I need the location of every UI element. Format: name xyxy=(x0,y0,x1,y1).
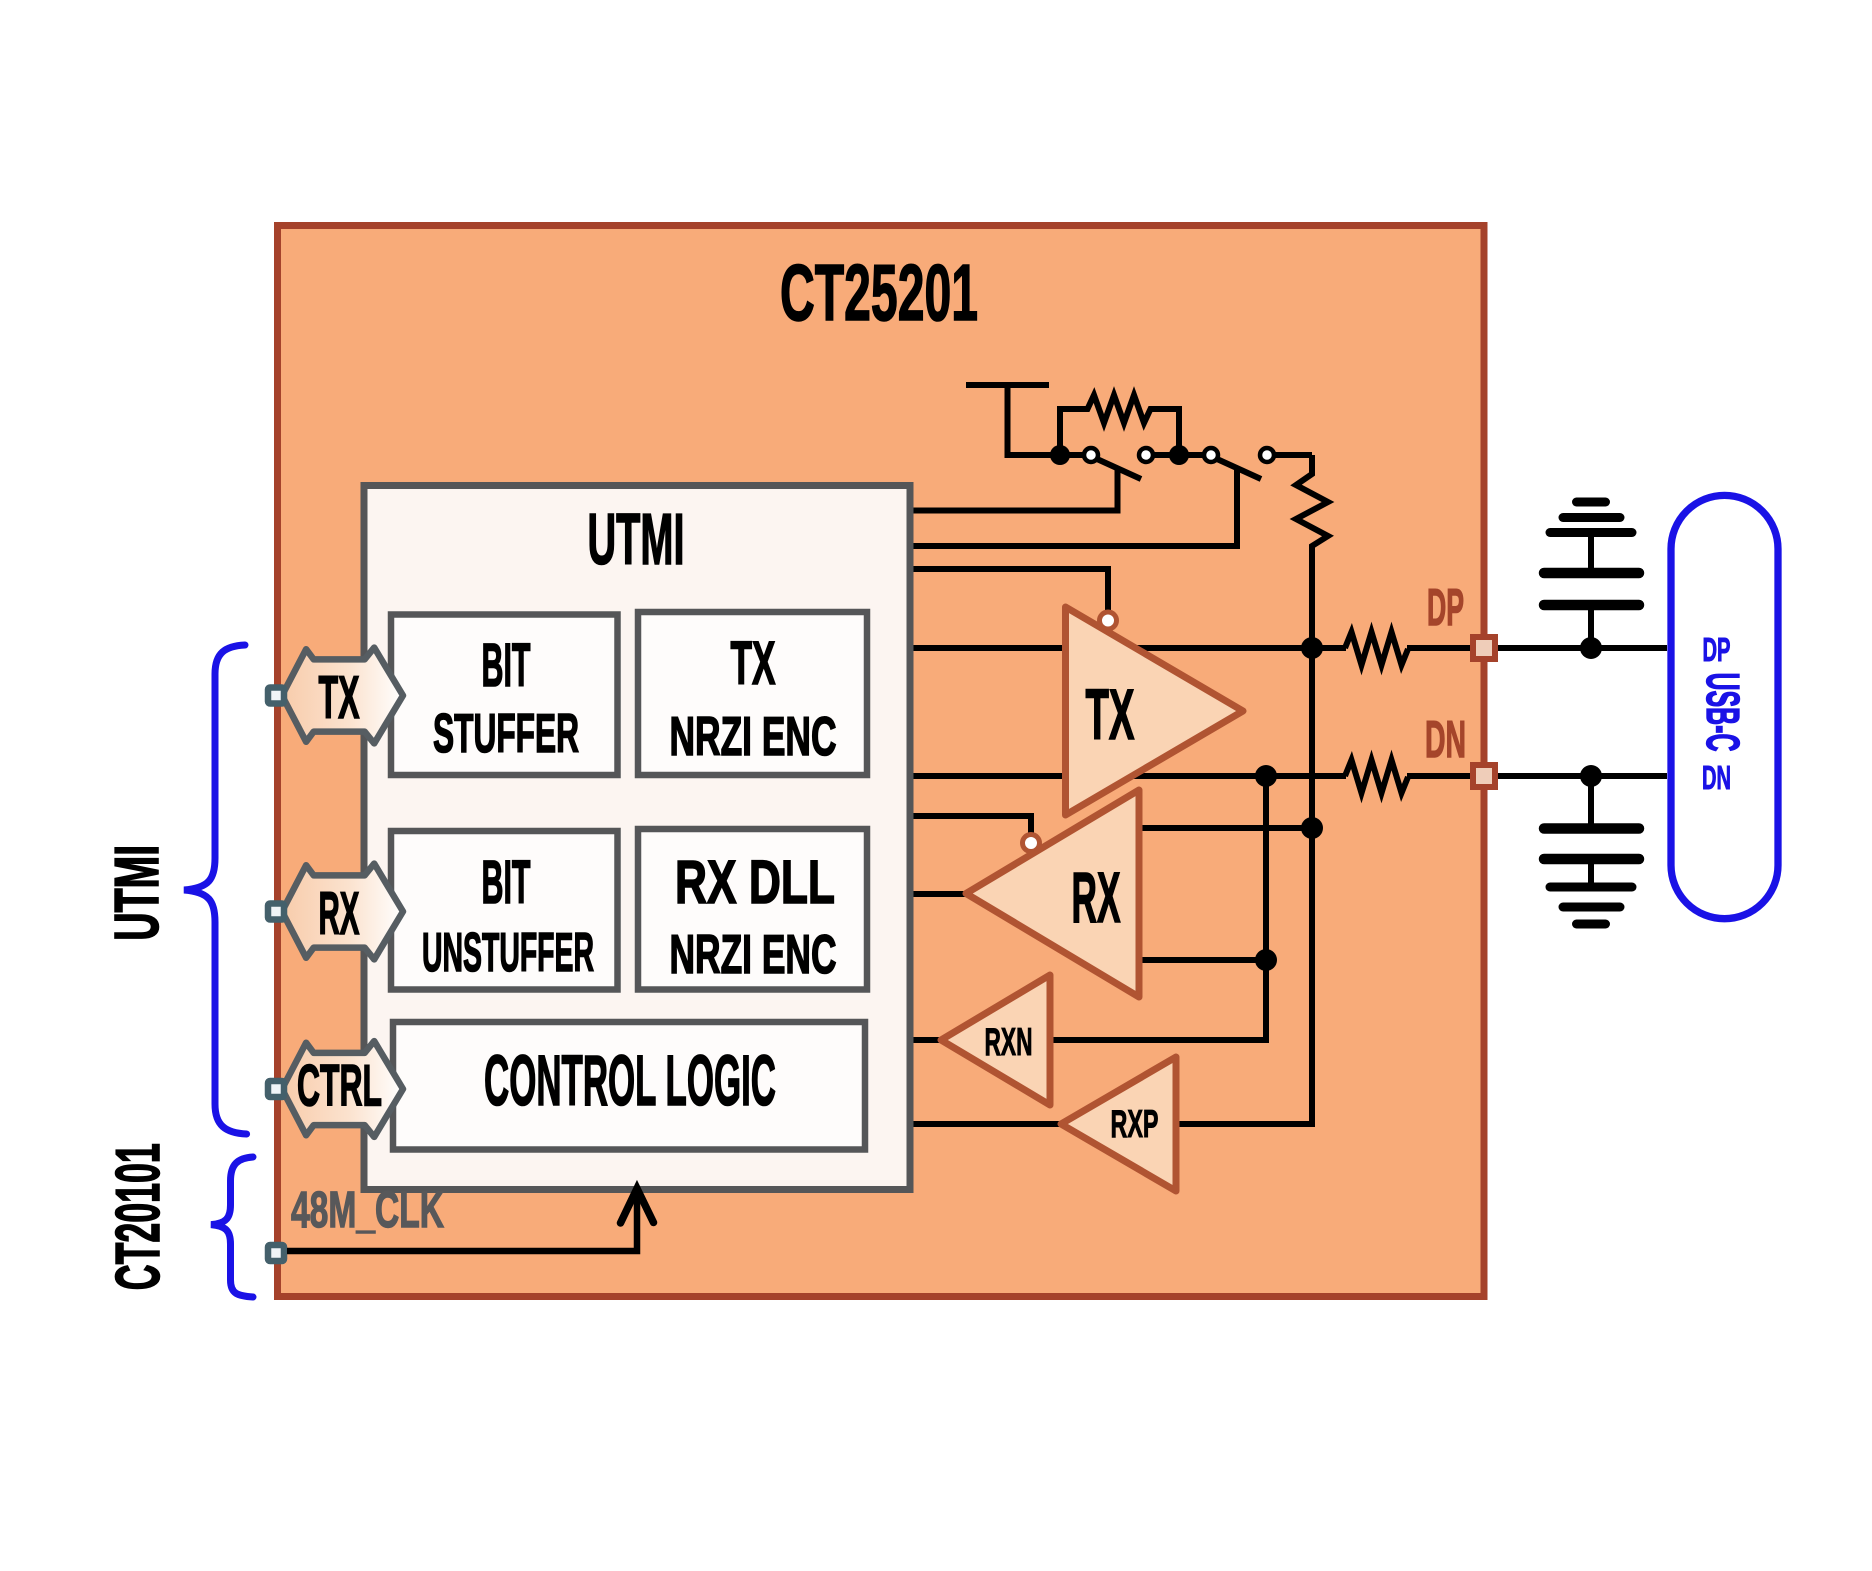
amplifier RXN xyxy=(941,975,1050,1105)
port arrow CTRL xyxy=(282,1041,403,1137)
ground G2 xyxy=(1550,887,1632,924)
block CONTROL LOGIC xyxy=(393,1022,865,1150)
port arrow RX xyxy=(282,864,403,960)
pin pad RX xyxy=(268,904,284,920)
svg-text:DN: DN xyxy=(1425,711,1466,769)
pin pad TX xyxy=(268,688,284,704)
capacitor C1 (DP) xyxy=(1544,533,1639,648)
svg-text:TX: TX xyxy=(319,664,360,731)
block UTMI xyxy=(364,486,910,1190)
wire DN branch vertical xyxy=(1263,776,1269,1040)
svg-text:CONTROL LOGIC: CONTROL LOGIC xyxy=(484,1042,776,1121)
pad DP xyxy=(1473,637,1495,659)
wire RX output top xyxy=(1139,825,1312,831)
wire RXN input to DN branch xyxy=(1050,1037,1269,1043)
svg-text:NRZI ENC: NRZI ENC xyxy=(670,923,837,985)
switch contact A2 xyxy=(1139,448,1153,462)
svg-text:USB-C: USB-C xyxy=(1697,673,1749,752)
svg-text:UTMI: UTMI xyxy=(103,845,172,941)
svg-text:RXP: RXP xyxy=(1111,1103,1159,1146)
inverter bubble RX enable xyxy=(1023,835,1040,852)
resistor R4 (DN series) xyxy=(1345,760,1408,793)
amplifier RX xyxy=(966,790,1139,997)
junction dot DN ext xyxy=(1580,765,1602,787)
ground G1 (flipped) xyxy=(1550,502,1632,533)
wire DP to USB-C xyxy=(1407,645,1667,651)
wire RXP to DP rail xyxy=(1176,1121,1315,1127)
svg-text:UTMI: UTMI xyxy=(588,500,685,580)
switch contact A4 xyxy=(1260,448,1274,462)
svg-text:RXN: RXN xyxy=(985,1021,1033,1064)
junction dot DP-R2 xyxy=(1301,637,1323,659)
switch contact A1 xyxy=(1084,448,1098,462)
capacitor C2 (DN) xyxy=(1544,776,1639,887)
junction dot RX top out xyxy=(1301,817,1323,839)
svg-text:UNSTUFFER: UNSTUFFER xyxy=(422,921,594,983)
block BIT STUFFER xyxy=(391,615,618,776)
svg-text:DP: DP xyxy=(1703,631,1731,668)
pad DN xyxy=(1473,765,1495,787)
svg-text:CTRL: CTRL xyxy=(297,1054,382,1119)
svg-text:RX DLL: RX DLL xyxy=(675,848,835,916)
wire DP rail vertical xyxy=(1309,648,1315,1124)
junction dot RX bottom out xyxy=(1255,949,1277,971)
IC body CT25201 xyxy=(278,226,1485,1297)
svg-text:RX: RX xyxy=(319,880,360,947)
wire RX output bottom xyxy=(1139,957,1266,963)
connector USB-C xyxy=(1671,495,1778,918)
svg-text:CT25201: CT25201 xyxy=(780,248,978,337)
svg-text:RX: RX xyxy=(1072,859,1121,938)
wire DP net (TX in behind amp) xyxy=(912,645,1346,651)
block RX DLL NRZI ENC xyxy=(638,829,867,990)
svg-text:BIT: BIT xyxy=(482,631,531,699)
pin pad CTRL xyxy=(268,1081,284,1097)
switch SW2 xyxy=(912,459,1261,546)
svg-text:NRZI ENC: NRZI ENC xyxy=(670,705,837,767)
wire RXN output xyxy=(912,1037,941,1043)
svg-text:CT20101: CT20101 xyxy=(104,1143,173,1290)
pin pad 48M_CLK xyxy=(268,1245,284,1261)
switch contact A3 xyxy=(1204,448,1218,462)
resistor R3 (DP series) xyxy=(1345,632,1408,665)
junction dot DN branch xyxy=(1255,765,1277,787)
wire 48M_CLK xyxy=(287,1192,637,1251)
switch SW1 xyxy=(912,459,1141,511)
junction dot DP ext xyxy=(1580,637,1602,659)
node VTERM T-stub xyxy=(966,385,1060,455)
svg-text:STUFFER: STUFFER xyxy=(433,702,579,764)
wire RXP output xyxy=(912,1121,1061,1127)
brace CT20101 xyxy=(211,1157,253,1297)
port arrow TX xyxy=(282,648,403,744)
wire RX enable to bubble xyxy=(912,816,1031,838)
inverter bubble TX enable xyxy=(1100,612,1117,629)
block TX NRZI ENC xyxy=(638,612,867,775)
wire DN net xyxy=(912,773,1346,779)
resistor R1 (pull-up bypass) xyxy=(1060,395,1179,455)
wire RX input xyxy=(912,891,966,897)
svg-text:TX: TX xyxy=(731,629,776,697)
svg-text:TX: TX xyxy=(1086,676,1135,755)
brace UTMI xyxy=(184,645,247,1134)
svg-text:DN: DN xyxy=(1702,759,1731,796)
junction dot N1 xyxy=(1050,445,1070,465)
wire TX enable to bubble xyxy=(912,569,1108,614)
amplifier TX xyxy=(1066,607,1244,815)
wire switch row xyxy=(1060,452,1312,458)
arrowhead 48M_CLK xyxy=(621,1189,654,1224)
svg-text:BIT: BIT xyxy=(482,848,531,916)
svg-text:DP: DP xyxy=(1427,579,1464,637)
junction dot N2 xyxy=(1169,445,1189,465)
wire DN to USB-C xyxy=(1407,773,1667,779)
resistor R2 (series to DP rail) xyxy=(1296,455,1328,648)
svg-text:48M_CLK: 48M_CLK xyxy=(291,1181,444,1238)
block BIT UNSTUFFER xyxy=(391,831,618,990)
amplifier RXP xyxy=(1061,1057,1176,1191)
